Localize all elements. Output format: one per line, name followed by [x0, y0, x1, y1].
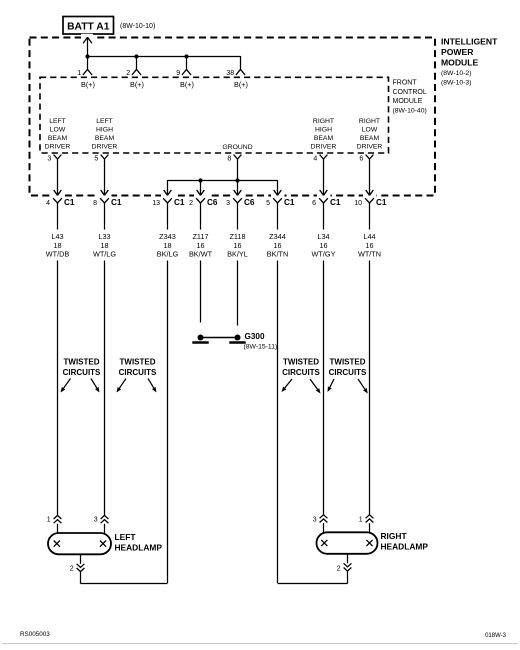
inline connector pin 1 left headlamp — [54, 515, 62, 519]
svg-text:5: 5 — [266, 200, 270, 207]
wire left headlamp pin 2 stub — [80, 554, 82, 564]
svg-text:CIRCUITS: CIRCUITS — [282, 368, 320, 377]
svg-text:1: 1 — [359, 516, 363, 523]
wire Z344 right headlamp return — [277, 261, 279, 584]
svg-text:(8W-10-10): (8W-10-10) — [120, 23, 155, 30]
svg-text:WT/GY: WT/GY — [312, 249, 336, 258]
svg-text:B(+): B(+) — [130, 80, 144, 89]
svg-text:BK/WT: BK/WT — [189, 249, 213, 258]
wire L44 to right headlamp pin1 — [369, 261, 371, 515]
inline connector pin 2 right headlamp — [344, 563, 352, 567]
pin 6 right low beam driver — [366, 155, 374, 159]
wire Z118 to ground — [237, 261, 239, 326]
wire drop to pin 2 — [136, 57, 138, 70]
svg-text:10: 10 — [354, 200, 362, 207]
connector pin 5 C1 — [273, 198, 282, 203]
pin 8 ground — [234, 155, 242, 159]
pin 4 right high beam driver — [320, 155, 328, 159]
white gaps in module edge at connectors — [51, 192, 65, 199]
svg-text:(8W-15-11): (8W-15-11) — [244, 344, 278, 351]
svg-text:FRONT: FRONT — [393, 80, 418, 87]
svg-text:CIRCUITS: CIRCUITS — [119, 368, 157, 377]
svg-text:C6: C6 — [244, 198, 255, 207]
svg-text:WT/LG: WT/LG — [93, 249, 116, 258]
svg-text:B(+): B(+) — [234, 80, 248, 89]
svg-text:DRIVER: DRIVER — [45, 144, 71, 151]
svg-text:3: 3 — [313, 516, 317, 523]
svg-text:C1: C1 — [111, 198, 122, 207]
wire Z343 left headlamp return — [167, 261, 169, 584]
wire between ground symbols — [204, 337, 235, 339]
svg-text:CIRCUITS: CIRCUITS — [63, 368, 101, 377]
svg-text:2: 2 — [337, 565, 341, 572]
svg-text:8: 8 — [227, 156, 231, 163]
svg-text:BEAM: BEAM — [95, 135, 115, 142]
wire drop to pin 9 — [186, 57, 188, 70]
connector pin 8 C1 — [100, 198, 109, 203]
junction dot at pin 1 drop — [85, 54, 89, 58]
connector pin 2 C6 — [196, 198, 205, 203]
svg-text:3: 3 — [226, 200, 230, 207]
svg-text:8: 8 — [93, 200, 97, 207]
svg-text:C1: C1 — [174, 198, 185, 207]
svg-text:(8W-10-2): (8W-10-2) — [441, 70, 471, 77]
svg-text:LEFT: LEFT — [49, 118, 66, 125]
junction dot at pin 2 drop — [134, 54, 138, 58]
svg-text:TWISTED: TWISTED — [120, 357, 156, 366]
svg-text:BEAM: BEAM — [360, 135, 380, 142]
svg-text:TWISTED: TWISTED — [64, 357, 100, 366]
inline connector pin 1 right headlamp — [366, 515, 374, 519]
connector pin 10 C1 — [365, 198, 374, 203]
svg-text:4: 4 — [313, 156, 317, 163]
connector pin 3 C6 — [233, 198, 242, 203]
battery feed box BATT A1 — [63, 17, 114, 35]
inline connector pin 3 left headlamp — [101, 515, 109, 519]
svg-text:HIGH: HIGH — [315, 126, 332, 133]
svg-text:LOW: LOW — [50, 126, 66, 133]
connector pin 4 C1 — [53, 198, 62, 203]
wire drop to pin 1 — [87, 57, 89, 70]
connector pin 6 C1 — [319, 198, 328, 203]
svg-text:BK/LG: BK/LG — [157, 249, 179, 258]
svg-text:CIRCUITS: CIRCUITS — [329, 368, 367, 377]
svg-text:5: 5 — [94, 156, 98, 163]
wire right headlamp return to Z344 — [347, 571, 349, 583]
pin 5 left high beam driver — [101, 155, 109, 159]
svg-text:C1: C1 — [64, 198, 75, 207]
svg-text:LEFT: LEFT — [115, 532, 137, 542]
svg-text:DRIVER: DRIVER — [311, 144, 337, 151]
svg-text:RIGHT: RIGHT — [381, 531, 408, 541]
wire battery feed to B(+) bus with up arrow — [87, 37, 89, 57]
white gap in module edge at battery arrow — [81, 34, 93, 41]
module exit arrow Z117 — [200, 190, 202, 196]
svg-text:BEAM: BEAM — [48, 135, 68, 142]
svg-text:B(+): B(+) — [81, 80, 95, 89]
svg-text:3: 3 — [47, 156, 51, 163]
svg-text:HIGH: HIGH — [96, 126, 113, 133]
svg-text:(8W-10-40): (8W-10-40) — [393, 107, 427, 114]
svg-text:DRIVER: DRIVER — [92, 144, 118, 151]
svg-text:CONTROL: CONTROL — [393, 89, 427, 96]
connector pin 13 C1 — [163, 198, 172, 203]
svg-text:6: 6 — [312, 200, 316, 207]
inline connector pin 2 left headlamp — [77, 564, 85, 568]
svg-text:13: 13 — [152, 200, 160, 207]
B(+) power bus wire — [87, 56, 241, 58]
ground splice bus wire — [168, 180, 278, 182]
svg-text:6: 6 — [359, 156, 363, 163]
svg-text:BEAM: BEAM — [314, 135, 334, 142]
front control module box — [40, 77, 389, 153]
ground symbol G300 right — [235, 335, 241, 341]
svg-text:2: 2 — [126, 70, 130, 77]
wire left headlamp return to Z343 — [80, 572, 82, 584]
junction dot ground splice at Z117 — [198, 178, 202, 182]
svg-text:4: 4 — [46, 200, 50, 207]
wire ground pin8 to splice — [237, 163, 239, 181]
left headlamp — [48, 533, 111, 554]
wire L33 to left headlamp pin3 — [104, 261, 106, 516]
pin 1 B(+) — [83, 69, 92, 75]
svg-text:1: 1 — [77, 70, 81, 77]
module exit arrow Z343 — [167, 190, 169, 196]
svg-text:HEADLAMP: HEADLAMP — [381, 542, 429, 552]
svg-text:018W-3: 018W-3 — [485, 633, 507, 639]
svg-text:MODULE: MODULE — [441, 58, 479, 68]
svg-text:BK/YL: BK/YL — [227, 249, 248, 258]
svg-text:BK/TN: BK/TN — [267, 249, 289, 258]
svg-text:1: 1 — [47, 516, 51, 523]
svg-text:9: 9 — [176, 70, 180, 77]
svg-text:RS005003: RS005003 — [20, 631, 50, 638]
right headlamp — [317, 532, 378, 554]
intelligent power module box — [30, 38, 436, 196]
svg-text:C1: C1 — [284, 198, 295, 207]
svg-text:DRIVER: DRIVER — [357, 144, 383, 151]
wire left high beam driver pin5 to connector — [104, 163, 106, 191]
inline connector pin 3 right headlamp — [320, 515, 328, 519]
svg-text:LEFT: LEFT — [96, 118, 113, 125]
pin 2 B(+) — [132, 69, 141, 75]
svg-text:GROUND: GROUND — [222, 144, 252, 151]
module exit arrow Z118 — [237, 190, 239, 196]
svg-text:(8W-10-3): (8W-10-3) — [441, 79, 471, 86]
svg-text:POWER: POWER — [441, 47, 474, 57]
wire Z117 to ground — [200, 261, 202, 323]
pin 3 left low beam driver — [54, 155, 62, 159]
wire L34 to right headlamp pin3 — [323, 261, 325, 515]
svg-text:RIGHT: RIGHT — [359, 118, 380, 125]
wire right high beam driver pin4 to connector — [323, 163, 325, 191]
footer rule — [2, 643, 518, 645]
svg-text:TWISTED: TWISTED — [283, 357, 319, 366]
svg-text:INTELLIGENT: INTELLIGENT — [441, 37, 498, 47]
svg-text:C1: C1 — [330, 198, 341, 207]
wire L43 to left headlamp pin1 — [57, 261, 59, 516]
junction dot at pin 9 drop — [184, 54, 188, 58]
svg-text:WT/TN: WT/TN — [358, 249, 381, 258]
svg-text:2: 2 — [70, 565, 74, 572]
module exit arrow Z344 — [277, 190, 279, 196]
svg-text:G300: G300 — [245, 332, 265, 341]
svg-text:WT/DB: WT/DB — [46, 249, 70, 258]
svg-text:3: 3 — [94, 516, 98, 523]
svg-text:HEADLAMP: HEADLAMP — [115, 542, 163, 552]
svg-text:C1: C1 — [376, 198, 387, 207]
wire left low beam driver pin3 to connector — [57, 163, 59, 191]
svg-text:LOW: LOW — [362, 126, 378, 133]
svg-text:38: 38 — [226, 70, 234, 77]
ground symbol G300 left — [198, 335, 204, 341]
wire right headlamp pin 2 stub — [347, 554, 349, 564]
svg-text:B(+): B(+) — [180, 80, 194, 89]
svg-text:2: 2 — [189, 200, 193, 207]
pin 9 B(+) — [182, 69, 191, 75]
svg-text:TWISTED: TWISTED — [330, 357, 366, 366]
svg-text:C6: C6 — [207, 198, 218, 207]
pin 38 B(+) — [236, 69, 245, 75]
wire right low beam driver pin6 to connector — [369, 163, 371, 191]
svg-text:RIGHT: RIGHT — [313, 118, 334, 125]
svg-text:MODULE: MODULE — [393, 98, 423, 105]
junction dot ground splice at Z118 — [235, 178, 239, 182]
svg-text:BATT A1: BATT A1 — [67, 21, 110, 32]
